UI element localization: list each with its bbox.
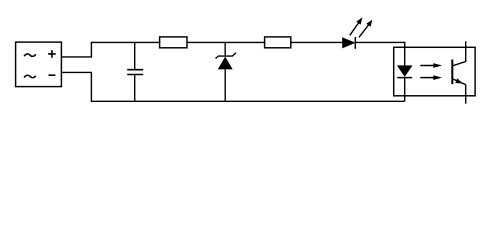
phototransistor Q1 base bar	[451, 60, 453, 85]
optocoupler U1 package	[394, 47, 475, 96]
optocoupler photodiode lead from top rail	[404, 42, 406, 65]
AC symbol bottom (~)	[24, 75, 36, 77]
wire: top rail to R1	[91, 41, 161, 43]
wire: top rail LED to optocoupler	[355, 41, 405, 43]
capacitor C1	[127, 70, 143, 102]
capacitor C1 top lead	[134, 42, 136, 69]
coupling arrow 2	[420, 75, 442, 80]
AC/DC source PS1	[16, 42, 62, 87]
optocoupler photodiode	[397, 65, 413, 101]
LED D2	[342, 37, 355, 49]
wire: bottom rail	[91, 100, 405, 102]
zener diode D1	[216, 53, 236, 102]
AC symbol top (~)	[24, 54, 36, 56]
phototransistor Q1 collector	[453, 41, 466, 66]
LED light arrow 2	[359, 20, 372, 38]
minus terminal label	[48, 74, 55, 76]
resistor R2	[265, 37, 291, 48]
LED light arrow 1	[350, 17, 363, 35]
phototransistor Q1 emitter	[453, 78, 466, 103]
wire: zener tap from top rail	[224, 42, 226, 56]
wire: + terminal stub to top rail	[61, 42, 91, 57]
wire: - terminal stub to bottom rail	[61, 72, 91, 101]
resistor R1	[160, 37, 187, 48]
coupling arrow 1	[420, 63, 442, 68]
wire: top rail R1 to R2	[187, 41, 265, 43]
wire: top rail R2 to LED	[291, 41, 343, 43]
plus terminal label	[48, 50, 56, 58]
